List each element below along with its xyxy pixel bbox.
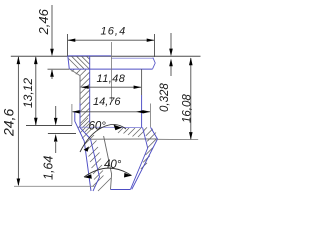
block top face line xyxy=(91,138,158,140)
dim 24,6 xyxy=(17,56,21,186)
right slant bulge xyxy=(153,58,156,69)
ext line 2,46 level xyxy=(48,68,70,70)
part top surface left half (blue) xyxy=(68,55,112,57)
svg-text:14,76: 14,76 xyxy=(93,96,121,108)
left wall outer x=80 xyxy=(79,76,81,103)
svg-text:1,64: 1,64 xyxy=(42,156,56,180)
left cavity wall x=89.7 xyxy=(89,56,91,123)
svg-text:60°: 60° xyxy=(89,121,107,133)
left small slant under notch xyxy=(70,69,80,75)
right cavity wall x=141.7 upper gray xyxy=(141,69,143,95)
dim 16,08 xyxy=(189,58,193,140)
dim 14,76 xyxy=(72,110,151,113)
svg-text:16,4: 16,4 xyxy=(101,26,127,38)
hatch band under cavity floor xyxy=(118,128,145,137)
svg-text:24,6: 24,6 xyxy=(0,109,16,137)
S2 wedge slant xyxy=(80,127,91,139)
right outer edge xyxy=(132,127,158,189)
dim 1,64 xyxy=(54,106,58,153)
left leg outer edge xyxy=(75,112,91,191)
right cavity wall x=141.7 lower blue xyxy=(141,95,143,128)
left leg inner edge xyxy=(91,139,100,191)
bottom face xyxy=(111,189,131,191)
ext line shoulder xyxy=(26,125,72,127)
ext line 14,76 right xyxy=(150,104,152,128)
dim 16,4 xyxy=(68,34,155,57)
svg-text:13,12: 13,12 xyxy=(21,78,35,108)
central block left line xyxy=(104,136,112,190)
svg-text:0,328: 0,328 xyxy=(159,83,171,112)
svg-text:16,08: 16,08 xyxy=(181,94,193,123)
dim 11,48 xyxy=(81,86,141,89)
svg-text:2,46: 2,46 xyxy=(36,8,51,35)
svg-text:40°: 40° xyxy=(104,159,122,171)
right inner kinked edge xyxy=(131,128,148,190)
top-left corner edge xyxy=(68,56,70,69)
cavity bottom line y127 xyxy=(80,126,143,128)
dim 0,328 xyxy=(169,33,173,76)
hatch right leg xyxy=(141,127,157,169)
hatch left top band xyxy=(69,56,90,69)
hatch left wall strip xyxy=(72,69,90,132)
ext line 16,08 bottom xyxy=(158,138,199,140)
deformed surface right half (blue faint) xyxy=(111,57,153,59)
cavity floor line y69 xyxy=(70,68,153,70)
ext line bottom 24,6 xyxy=(14,185,95,187)
40 deg arc with arrows xyxy=(84,168,132,179)
centerline xyxy=(110,42,112,101)
svg-text:11,48: 11,48 xyxy=(97,73,126,85)
dim 2,46 line + arrows xyxy=(50,5,54,79)
ext line 1,64 bottom xyxy=(48,133,76,135)
original surface line xyxy=(11,55,201,57)
60 deg arc with arrows xyxy=(80,125,126,152)
ext line 14,76 left xyxy=(71,104,73,125)
dim 13,12 xyxy=(34,56,38,125)
hatch left leg xyxy=(78,118,111,191)
